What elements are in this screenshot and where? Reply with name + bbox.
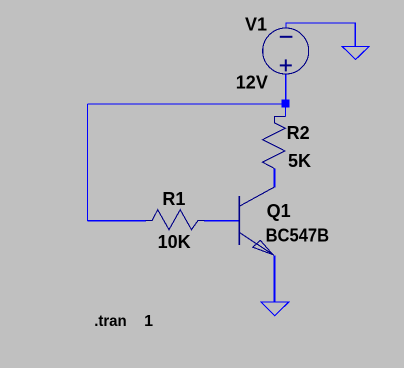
- svg-text:5K: 5K: [288, 151, 311, 171]
- svg-text:R2: R2: [287, 123, 310, 143]
- svg-text:10K: 10K: [158, 232, 191, 252]
- svg-text:.tran: .tran: [94, 313, 127, 330]
- svg-text:1: 1: [144, 313, 153, 330]
- svg-text:Q1: Q1: [267, 201, 291, 221]
- svg-text:12V: 12V: [236, 72, 268, 92]
- svg-text:BC547B: BC547B: [266, 225, 330, 245]
- svg-text:R1: R1: [162, 189, 185, 209]
- svg-text:V1: V1: [245, 15, 267, 35]
